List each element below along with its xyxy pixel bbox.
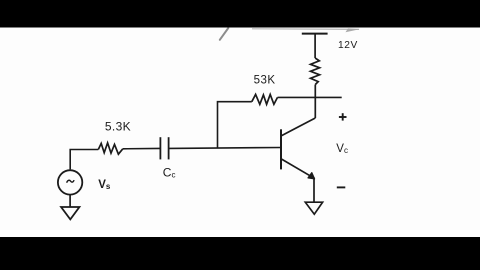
bottom letterbox bar [0, 237, 480, 270]
annotation grey arrow (mostly hidden by letterbox) [252, 28, 360, 32]
wire Cc to base (node B) [169, 147, 281, 150]
transistor Q1 [281, 118, 315, 179]
capacitor Cc [160, 137, 168, 159]
top letterbox bar [0, 0, 480, 28]
svg-text:12V: 12V [338, 40, 358, 51]
svg-text:5.3K: 5.3K [105, 120, 131, 134]
resistor RC (vertical) [311, 58, 320, 85]
wire RC to collector node [314, 85, 316, 119]
wire RS to Cc [123, 147, 160, 149]
annotation grey stroke (pen mark) [220, 28, 229, 40]
wire Rf to output node [278, 96, 342, 98]
wire rail to RC [314, 34, 316, 58]
wire emitter to ground [313, 178, 315, 203]
ground (emitter) [305, 202, 322, 214]
output + [339, 113, 347, 120]
wire node B up (feedback left leg) [218, 102, 252, 148]
power rail 12V [302, 33, 328, 35]
output − [337, 186, 346, 188]
svg-text:53K: 53K [254, 75, 276, 87]
wire Vs to RS [70, 150, 98, 170]
resistor Rf 53K [252, 94, 278, 104]
ground (source) [61, 207, 79, 219]
wire Vs to ground [69, 195, 71, 207]
voltage source Vs [58, 170, 82, 194]
resistor RS 5.3K [98, 143, 123, 154]
